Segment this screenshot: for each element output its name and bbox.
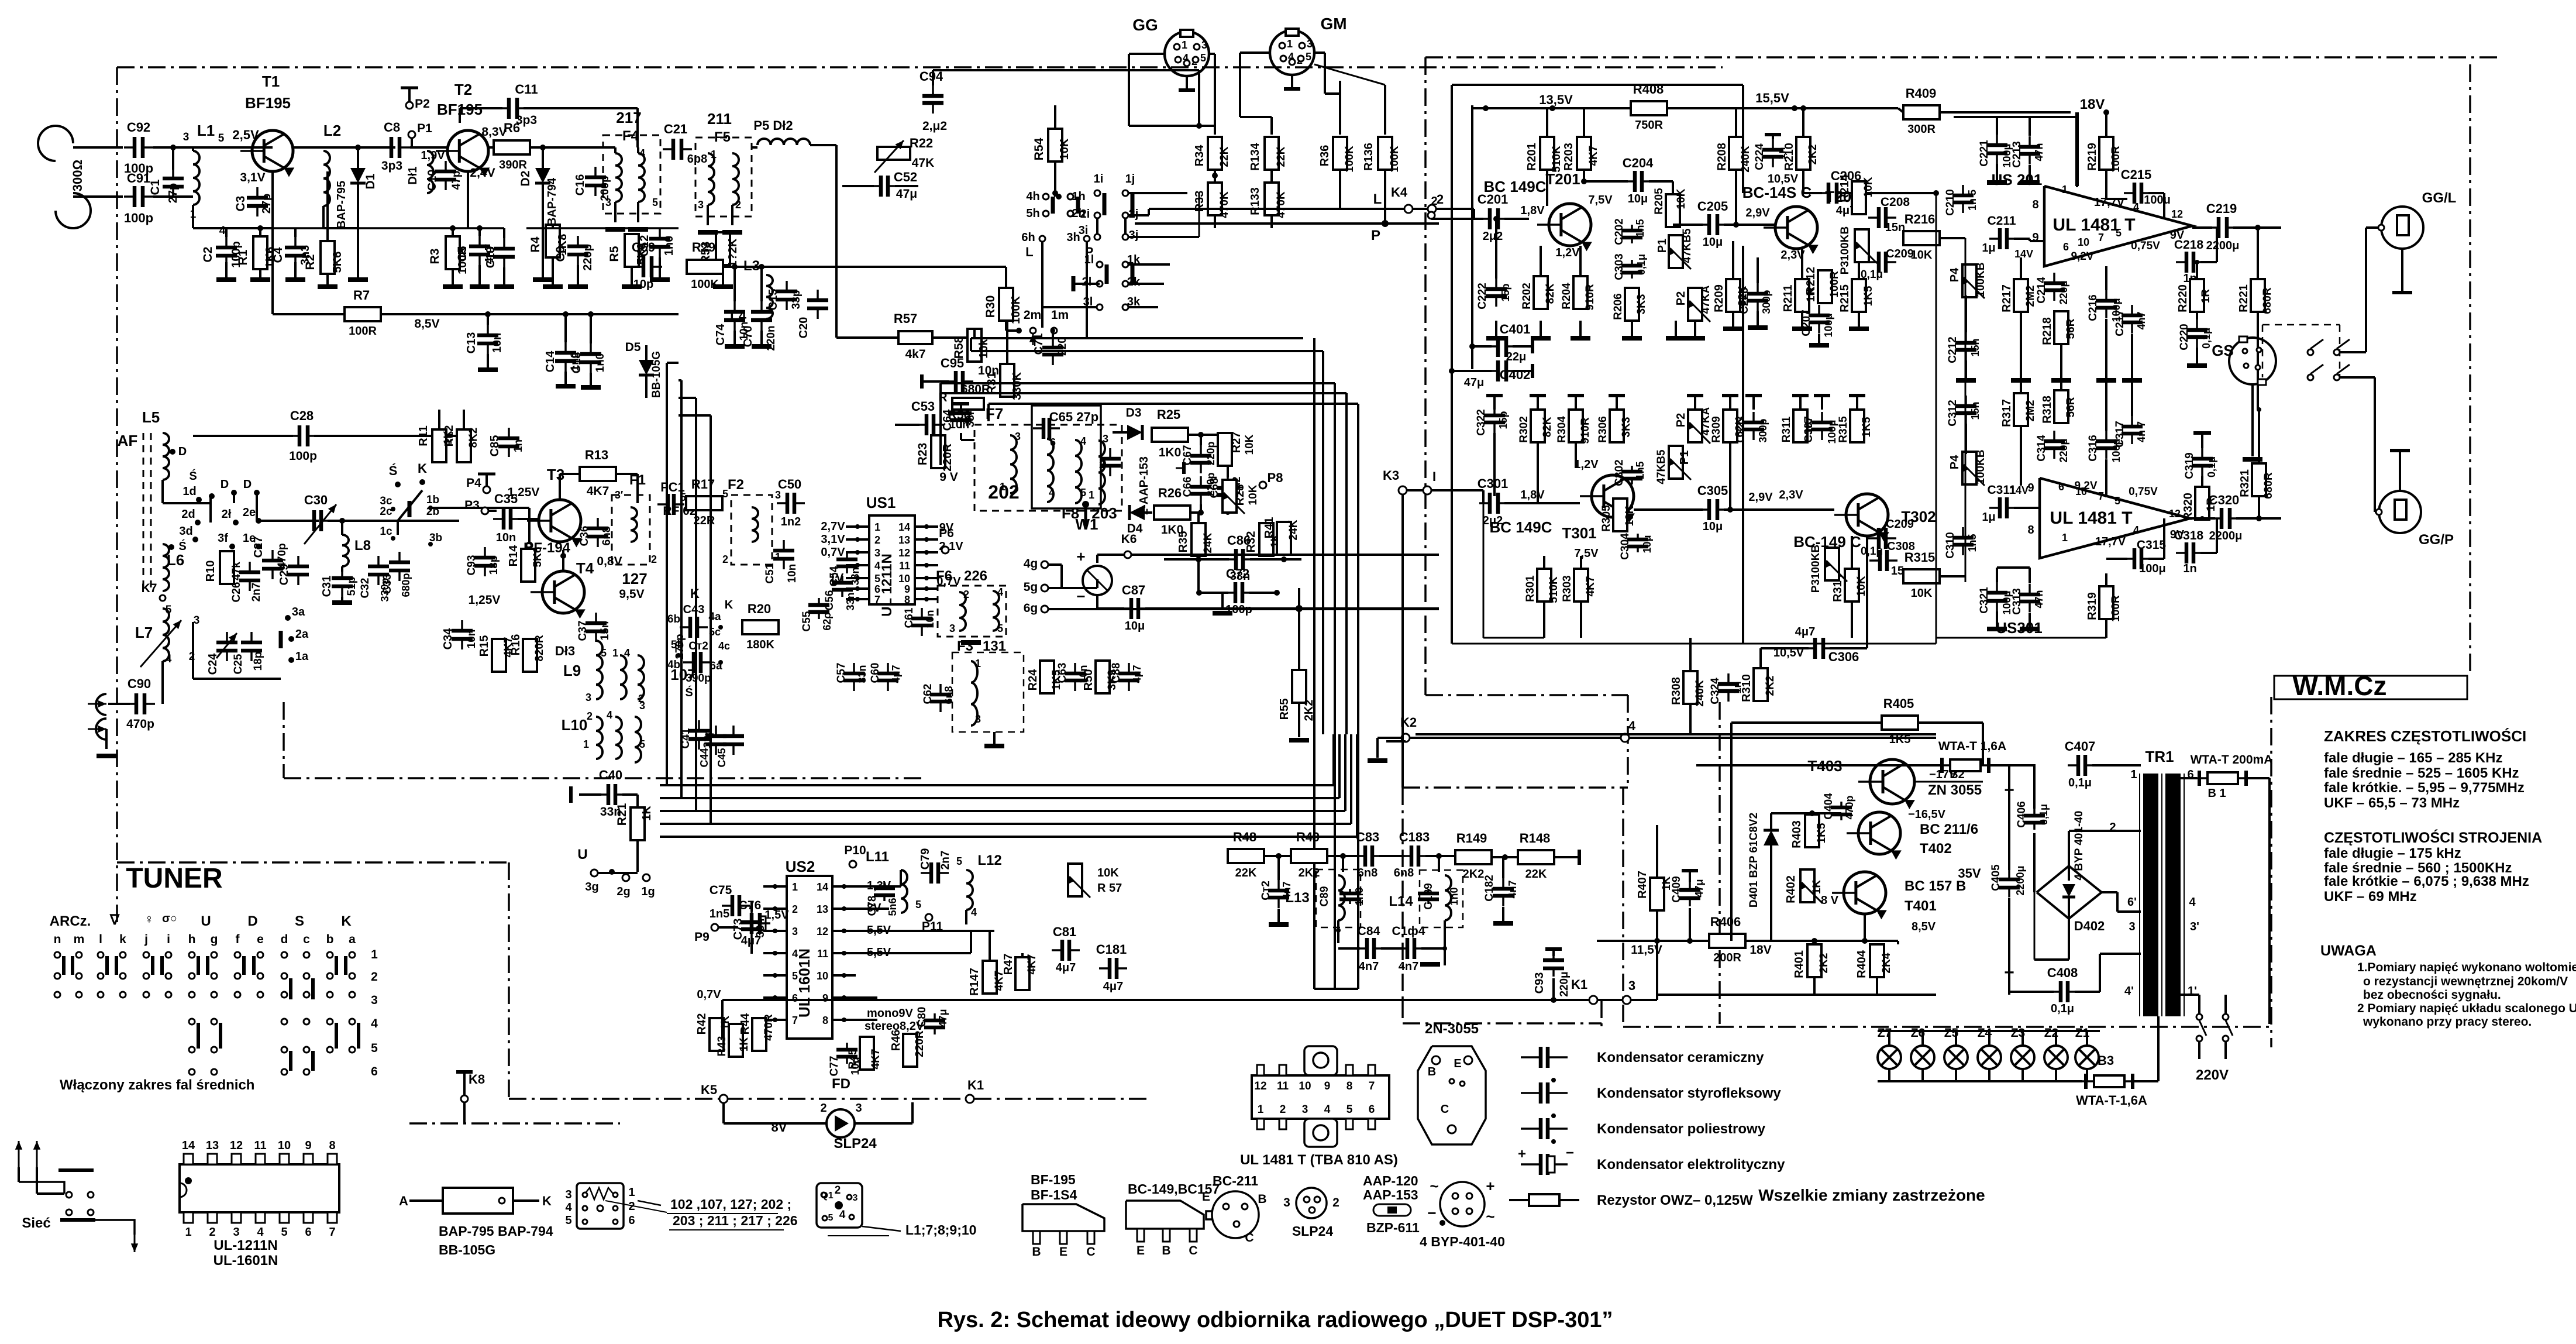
svg-text:11: 11 — [254, 1139, 266, 1152]
svg-text:6n8: 6n8 — [601, 527, 613, 546]
capacitor C35 — [493, 518, 504, 520]
svg-text:4K7: 4K7 — [870, 1049, 882, 1070]
svg-text:C84: C84 — [1358, 924, 1380, 938]
capacitor C68 — [1227, 477, 1229, 488]
svg-text:−: − — [1566, 1145, 1574, 1161]
switch 220V — [2196, 1014, 2202, 1020]
svg-text:GM: GM — [1320, 15, 1346, 33]
svg-text:R13: R13 — [585, 448, 608, 462]
resistor R24 1K5 — [1040, 661, 1054, 693]
svg-text:5: 5 — [828, 1213, 834, 1223]
svg-text:15,5V: 15,5V — [1755, 91, 1789, 105]
svg-text:C16: C16 — [574, 174, 587, 196]
svg-text:9,5V: 9,5V — [619, 587, 644, 601]
svg-text:5: 5 — [565, 1214, 571, 1227]
svg-text:F7: F7 — [986, 405, 1003, 422]
svg-text:5: 5 — [956, 855, 962, 867]
svg-text:B2: B2 — [1950, 768, 1965, 781]
svg-text:6p8: 6p8 — [687, 153, 707, 166]
svg-text:1n2: 1n2 — [781, 515, 801, 528]
svg-text:R304: R304 — [1556, 416, 1568, 443]
wire GM — [1240, 51, 1270, 54]
svg-text:51p: 51p — [346, 577, 358, 596]
wire — [161, 661, 164, 704]
svg-text:226: 226 — [964, 568, 987, 584]
resistor R16 820R — [523, 639, 537, 672]
svg-text:4: 4 — [371, 1017, 378, 1030]
svg-text:2: 2 — [963, 589, 969, 600]
capacitor C44 — [715, 726, 717, 736]
resistor R36 100K — [1333, 137, 1347, 170]
svg-text:Kondensator ceramiczny: Kondensator ceramiczny — [1597, 1050, 1764, 1065]
resistor R17 22R — [686, 496, 722, 510]
resistor R1 1K6 — [253, 236, 267, 269]
svg-text:4: 4 — [219, 225, 226, 237]
svg-text:WTA-T 1,6A: WTA-T 1,6A — [1938, 740, 2006, 753]
svg-text:910R: 910R — [1584, 284, 1596, 311]
transistor T201 — [1549, 204, 1591, 246]
svg-text:1K5: 1K5 — [1861, 417, 1873, 437]
jack left2 — [96, 719, 106, 740]
svg-text:T1: T1 — [262, 73, 280, 90]
node P2 — [406, 102, 413, 109]
resistor R314 10K — [1845, 569, 1859, 601]
svg-text:C21: C21 — [664, 122, 687, 136]
inductor L5 — [163, 433, 169, 480]
svg-text:3: 3 — [975, 713, 981, 725]
svg-text:T201: T201 — [1545, 170, 1580, 188]
svg-text:B 1: B 1 — [2207, 787, 2226, 800]
node P3 — [481, 507, 488, 514]
resistor R215 1K5 — [1852, 279, 1866, 312]
resistor R310 2K2 — [1754, 668, 1768, 701]
resistor R20 180K — [742, 620, 779, 634]
svg-text:R22: R22 — [910, 136, 933, 150]
svg-text:R23: R23 — [916, 443, 929, 466]
svg-text:K: K — [418, 461, 427, 476]
svg-text:330K: 330K — [1011, 372, 1024, 400]
svg-text:200p: 200p — [599, 176, 611, 201]
capacitor C5 — [478, 236, 481, 246]
pot R28 10K — [1222, 480, 1237, 513]
resistor R23 220R — [931, 435, 945, 468]
svg-text:C311: C311 — [1987, 483, 2016, 497]
svg-text:C320: C320 — [2209, 493, 2240, 507]
svg-text:3g: 3g — [585, 881, 598, 893]
svg-text:T301: T301 — [1562, 524, 1596, 542]
svg-text:R309: R309 — [1710, 416, 1723, 442]
svg-text:f: f — [236, 933, 240, 946]
capacitor C75 — [722, 905, 732, 907]
svg-text:BF-195: BF-195 — [1031, 1172, 1076, 1187]
capacitor C50 — [777, 502, 787, 504]
svg-text:C28: C28 — [290, 408, 314, 423]
svg-text:1K: 1K — [640, 806, 653, 821]
svg-text:8,5V: 8,5V — [414, 317, 439, 331]
svg-text:220R: 220R — [941, 444, 954, 472]
svg-text:BF195: BF195 — [245, 94, 291, 112]
capacitor C80 — [934, 1013, 936, 1020]
svg-text:C2: C2 — [201, 247, 215, 263]
capacitor C76 — [741, 922, 752, 924]
svg-text:5: 5 — [915, 899, 921, 910]
svg-text:GG: GG — [1132, 16, 1158, 34]
svg-text:1,25V: 1,25V — [469, 593, 501, 607]
svg-text:BC 149C: BC 149C — [1490, 518, 1552, 536]
capacitor C36 — [597, 518, 599, 528]
svg-text:2K2: 2K2 — [1463, 868, 1485, 881]
svg-text:3: 3 — [949, 623, 955, 634]
capacitor C216 100u — [2105, 290, 2107, 301]
svg-text:R55: R55 — [1278, 699, 1291, 720]
svg-text:4: 4 — [565, 1201, 572, 1214]
svg-text:R306: R306 — [1597, 416, 1609, 442]
svg-text:C224: C224 — [1754, 143, 1766, 170]
svg-text:L7: L7 — [135, 624, 153, 641]
svg-text:R305: R305 — [1600, 505, 1613, 532]
svg-text:R315: R315 — [1837, 416, 1850, 443]
svg-text:US 201: US 201 — [1992, 171, 2043, 188]
resistor R134 22K — [1265, 137, 1279, 170]
svg-text:R16: R16 — [509, 634, 522, 656]
svg-text:C77: C77 — [828, 1056, 841, 1077]
svg-text:+: + — [1518, 1146, 1526, 1162]
wire — [228, 227, 273, 229]
svg-text:BAP-795: BAP-795 — [335, 181, 348, 229]
svg-text:0,1μ: 0,1μ — [2200, 328, 2212, 349]
svg-text:C321: C321 — [1978, 587, 1990, 614]
svg-text:1K5: 1K5 — [1816, 823, 1828, 843]
svg-text:R34: R34 — [1193, 145, 1206, 167]
svg-text:3: 3 — [1201, 39, 1207, 51]
svg-text:D5: D5 — [625, 341, 641, 354]
lamps Z7-Z1 — [1878, 1046, 1901, 1069]
svg-text:US2: US2 — [786, 858, 815, 875]
wire bus — [431, 507, 529, 509]
wire op bottom — [2040, 637, 2106, 639]
svg-text:C318: C318 — [2174, 529, 2204, 542]
svg-text:33p: 33p — [790, 290, 803, 310]
svg-text:R47: R47 — [1002, 954, 1015, 975]
capacitor C318 1n — [2176, 552, 2186, 554]
svg-text:R28: R28 — [1234, 484, 1246, 506]
svg-text:C1: C1 — [149, 179, 162, 195]
svg-text:10K: 10K — [1675, 188, 1688, 209]
svg-text:4: 4 — [1049, 487, 1055, 499]
svg-text:2c: 2c — [380, 506, 392, 518]
svg-text:C213: C213 — [2011, 141, 2023, 167]
svg-text:C26: C26 — [230, 582, 243, 603]
svg-text:AAP-120: AAP-120 — [1363, 1173, 1418, 1188]
svg-text:K7: K7 — [142, 582, 157, 595]
svg-text:Kondensator elektrolityczny: Kondensator elektrolityczny — [1597, 1157, 1785, 1173]
svg-text:C10: C10 — [426, 170, 439, 191]
svg-text:C30: C30 — [304, 493, 328, 507]
svg-text:R401: R401 — [1793, 950, 1806, 978]
switch contacts out P — [2308, 374, 2313, 380]
svg-text:R320: R320 — [2182, 493, 2195, 521]
svg-text:3f: 3f — [218, 532, 228, 545]
svg-text:C36: C36 — [578, 526, 591, 546]
resistor R206 3K3 — [1625, 288, 1639, 321]
svg-text:D: D — [221, 478, 229, 491]
svg-text:UL-1601N: UL-1601N — [213, 1253, 278, 1269]
resistor R46 220R — [903, 1034, 917, 1067]
svg-text:2K4: 2K4 — [1881, 953, 1893, 973]
svg-text:C207: C207 — [1800, 310, 1813, 336]
capacitor C220 0,1u — [2196, 319, 2198, 330]
svg-text:4μ7: 4μ7 — [890, 665, 902, 683]
svg-text:203 ; 211 ; 217 ; 226: 203 ; 211 ; 217 ; 226 — [673, 1213, 798, 1228]
filter box F3 131 — [952, 652, 1024, 732]
resistor R305 10K — [1613, 499, 1627, 531]
capacitor C42 — [683, 661, 694, 664]
svg-text:1: 1 — [612, 647, 618, 659]
svg-text:R315: R315 — [1905, 550, 1936, 565]
svg-text:C56: C56 — [824, 590, 836, 611]
svg-text:1: 1 — [975, 658, 981, 669]
svg-text:15n: 15n — [1969, 401, 1981, 420]
svg-text:8 V: 8 V — [1821, 894, 1839, 907]
capacitor C13 — [487, 325, 489, 335]
svg-text:BC-14S C: BC-14S C — [1742, 184, 1812, 201]
svg-text:C53: C53 — [911, 399, 935, 414]
svg-text:3: 3 — [1103, 433, 1108, 445]
wire 6g — [1048, 608, 1439, 610]
svg-text:14V: 14V — [2014, 248, 2033, 260]
svg-text:470p: 470p — [126, 717, 154, 731]
svg-text:Rys. 2: Schemat ideowy odbi: Rys. 2: Schemat ideowy odbiornika radiow… — [937, 1308, 1613, 1332]
svg-text:3p3: 3p3 — [381, 159, 402, 173]
ground — [318, 284, 338, 289]
svg-text:L12: L12 — [977, 853, 1001, 868]
svg-text:U: U — [577, 847, 587, 862]
svg-text:5: 5 — [792, 970, 798, 982]
svg-text:2i: 2i — [1080, 208, 1090, 221]
svg-text:10p: 10p — [633, 278, 653, 291]
svg-text:C: C — [1189, 1244, 1197, 1257]
svg-text:6': 6' — [2127, 896, 2137, 909]
svg-text:240K: 240K — [1694, 680, 1706, 707]
svg-text:K: K — [542, 1194, 552, 1208]
svg-text:R203: R203 — [1562, 143, 1575, 171]
svg-text:R211: R211 — [1782, 285, 1795, 312]
svg-text:2-AAP-153: 2-AAP-153 — [1138, 456, 1151, 515]
svg-text:R204: R204 — [1561, 283, 1573, 310]
svg-text:R134: R134 — [1249, 142, 1262, 171]
svg-text:9,2V: 9,2V — [2071, 250, 2093, 263]
svg-text:0,1μ: 0,1μ — [1635, 254, 1647, 275]
svg-text:C407: C407 — [2065, 739, 2096, 754]
svg-text:R44: R44 — [739, 1013, 752, 1035]
svg-text:C306: C306 — [1828, 649, 1859, 664]
capacitor C37 — [595, 613, 597, 623]
svg-text:C: C — [1245, 1231, 1253, 1245]
svg-text:18V: 18V — [1750, 943, 1771, 957]
svg-text:12: 12 — [2171, 208, 2183, 220]
svg-text:P4: P4 — [1948, 455, 1961, 469]
svg-text:13: 13 — [898, 534, 910, 546]
capacitor C218 1n — [2176, 261, 2186, 263]
svg-text:C316: C316 — [2087, 435, 2099, 461]
svg-text:UL 1211N: UL 1211N — [879, 554, 895, 617]
svg-text:82K: 82K — [1544, 283, 1556, 304]
svg-text:R209: R209 — [1713, 284, 1726, 312]
resistor R201 510K — [1540, 137, 1554, 170]
capacitor C406 — [2033, 809, 2036, 816]
svg-text:T4: T4 — [576, 559, 594, 577]
svg-text:C209: C209 — [1886, 248, 1914, 260]
resistor R219 100R — [2099, 137, 2113, 170]
svg-text:C57: C57 — [835, 663, 848, 683]
svg-text:2M2: 2M2 — [2024, 286, 2037, 307]
svg-text:2: 2 — [209, 1226, 215, 1239]
svg-text:C29: C29 — [278, 564, 291, 586]
resistor R14 5K6 — [521, 549, 535, 582]
svg-text:R42: R42 — [695, 1013, 708, 1035]
svg-text:R11: R11 — [417, 425, 430, 446]
svg-text:K1: K1 — [1571, 977, 1587, 992]
svg-text:K1: K1 — [967, 1078, 984, 1092]
svg-text:C303: C303 — [1613, 253, 1626, 280]
capacitor C211 1u — [1989, 238, 2000, 240]
svg-text:2K2: 2K2 — [1807, 145, 1819, 165]
resistor R48 22K — [1228, 849, 1264, 863]
svg-text:CZĘSTOTLIWOŚCI STROJENIA: CZĘSTOTLIWOŚCI STROJENIA — [2324, 829, 2542, 846]
resistor R320 1R — [2195, 487, 2209, 520]
svg-text:4: 4 — [971, 906, 977, 918]
svg-text:1a: 1a — [295, 650, 309, 663]
svg-text:Ś: Ś — [189, 469, 197, 483]
svg-text:C214: C214 — [2036, 277, 2048, 304]
capacitor C32 — [377, 556, 380, 566]
resistor R147 4K7 — [983, 961, 997, 994]
inductor L12 — [966, 870, 973, 910]
svg-text:4: 4 — [1324, 1104, 1331, 1116]
svg-text:K5: K5 — [701, 1082, 717, 1097]
svg-text:5h: 5h — [1026, 207, 1039, 220]
wire GG — [1129, 53, 1165, 55]
wire k lines — [721, 1000, 724, 1039]
svg-text:100K: 100K — [1010, 296, 1022, 324]
svg-text:Kondensator styrofleksowy: Kondensator styrofleksowy — [1597, 1085, 1781, 1101]
capacitor C206 4u7 — [1818, 192, 1828, 194]
capacitor C408 — [2050, 991, 2061, 993]
svg-text:R133: R133 — [1249, 187, 1262, 215]
svg-text:R409: R409 — [1906, 86, 1937, 101]
pot P4 100KB — [1962, 264, 1976, 297]
capacitor C53 — [916, 424, 927, 426]
capacitor C83 — [1355, 855, 1365, 857]
svg-text:100μ: 100μ — [1823, 313, 1834, 337]
svg-text:2μ2: 2μ2 — [1483, 230, 1503, 243]
svg-text:33n: 33n — [755, 919, 767, 938]
svg-text:10: 10 — [1299, 1080, 1311, 1092]
resistor R25 1K0 — [1152, 428, 1188, 442]
svg-text:R318: R318 — [2041, 396, 2054, 424]
capacitor C54 — [846, 552, 848, 559]
svg-text:8V: 8V — [772, 1120, 787, 1135]
svg-text:18p: 18p — [252, 652, 264, 671]
svg-text:C60: C60 — [869, 663, 881, 683]
svg-text:10K: 10K — [1097, 867, 1119, 879]
line L K4 — [1149, 208, 1405, 210]
svg-text:14: 14 — [898, 521, 910, 533]
capacitor C66 — [1200, 476, 1202, 487]
svg-text:R15: R15 — [478, 635, 491, 657]
svg-text:3: 3 — [874, 547, 880, 559]
svg-text:+: + — [1076, 548, 1085, 565]
svg-text:R27: R27 — [1230, 432, 1243, 453]
svg-text:P10: P10 — [844, 844, 866, 857]
svg-text:4K7: 4K7 — [1026, 954, 1038, 975]
svg-text:C65 27p: C65 27p — [1049, 410, 1098, 424]
diode D4 — [1129, 505, 1145, 520]
svg-text:D: D — [247, 913, 257, 929]
svg-text:R220: R220 — [2176, 284, 2189, 312]
svg-text:R7: R7 — [353, 288, 370, 303]
svg-text:7,5V: 7,5V — [1588, 194, 1613, 207]
svg-text:1g: 1g — [641, 885, 655, 898]
svg-text:L9: L9 — [563, 662, 581, 679]
svg-text:R201: R201 — [1525, 143, 1538, 171]
svg-text:C305: C305 — [1697, 483, 1728, 498]
svg-text:C9: C9 — [554, 246, 567, 262]
package filter can — [577, 1183, 624, 1229]
svg-text:b: b — [326, 933, 334, 946]
svg-text:5K6: 5K6 — [532, 547, 544, 568]
svg-text:11: 11 — [1277, 1080, 1289, 1092]
svg-text:R136: R136 — [1362, 143, 1375, 171]
svg-text:Ś: Ś — [685, 685, 693, 699]
inductor L7 — [163, 609, 169, 661]
svg-text:D: D — [243, 478, 252, 491]
svg-text:R10: R10 — [204, 561, 217, 582]
svg-text:3: 3 — [639, 700, 645, 711]
svg-text:300p: 300p — [1761, 290, 1772, 314]
svg-text:2: 2 — [735, 199, 741, 211]
svg-text:C: C — [1086, 1245, 1095, 1259]
W.M.Cz label box — [2274, 676, 2467, 699]
svg-text:6: 6 — [2063, 241, 2069, 253]
svg-text:R214: R214 — [1838, 174, 1851, 202]
svg-text:C78: C78 — [866, 896, 879, 916]
svg-text:C50: C50 — [778, 477, 801, 491]
svg-text:1n0: 1n0 — [1448, 887, 1460, 905]
svg-text:C5: C5 — [456, 246, 469, 262]
svg-text:P9: P9 — [694, 930, 710, 944]
svg-text:R30: R30 — [984, 295, 997, 318]
pot P2 47KA — [1688, 288, 1702, 321]
inductor Dl1 — [427, 151, 433, 193]
svg-text:3: 3 — [183, 131, 190, 143]
package SLP24 bottom — [1296, 1188, 1327, 1218]
svg-text:4c: 4c — [718, 640, 730, 652]
svg-text:UL 1481 T (TBA 810 AS): UL 1481 T (TBA 810 AS) — [1240, 1152, 1398, 1168]
resistor R47 4K7 — [1015, 957, 1029, 990]
svg-text:10K: 10K — [1855, 576, 1868, 596]
svg-text:220μ: 220μ — [2058, 438, 2069, 462]
wire pwr — [1730, 723, 1733, 941]
capacitor C34 — [461, 620, 463, 631]
svg-text:4: 4 — [1628, 719, 1636, 733]
svg-text:10μ: 10μ — [1703, 236, 1723, 249]
resistor R315 1K5 — [1850, 410, 1864, 442]
svg-text:820R: 820R — [533, 635, 546, 662]
svg-text:4k7: 4k7 — [905, 348, 925, 361]
capacitor C301 — [1479, 502, 1490, 504]
resistor R308 240K — [1683, 671, 1697, 704]
